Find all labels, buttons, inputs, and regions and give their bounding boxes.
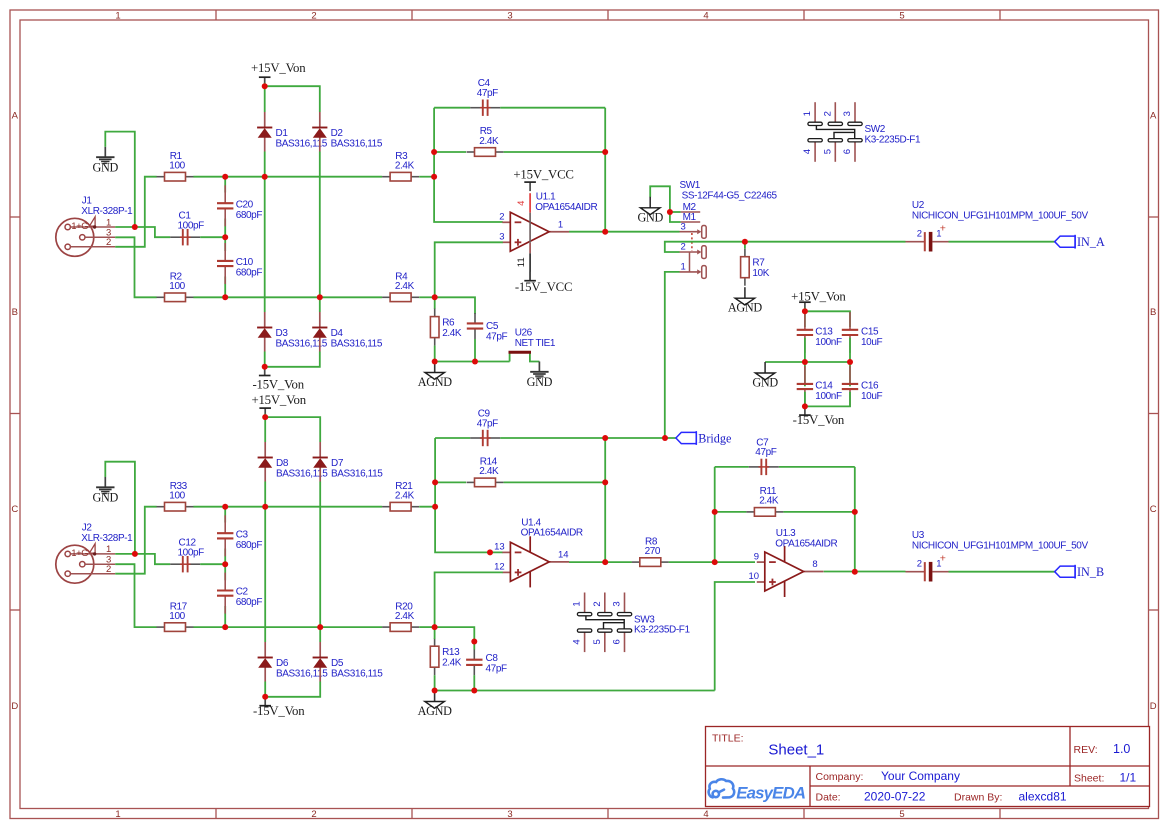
svg-text:K3-2235D-F1: K3-2235D-F1 (865, 134, 921, 145)
svg-text:47pF: 47pF (477, 88, 498, 99)
svg-text:2: 2 (311, 10, 316, 21)
svg-text:2.4K: 2.4K (395, 491, 415, 502)
wire R8 to U1.3 pin9 (669, 561, 755, 563)
svg-text:4: 4 (516, 201, 527, 206)
svg-text:OPA1654AIDR: OPA1654AIDR (521, 528, 583, 539)
svg-text:J2: J2 (82, 522, 93, 533)
resistor R3 (382, 151, 419, 181)
wire D3 D4 to -15V_Von (265, 352, 320, 367)
svg-text:680pF: 680pF (236, 540, 263, 551)
svg-text:+15V_VCC: +15V_VCC (513, 167, 573, 181)
svg-text:5: 5 (592, 639, 603, 644)
svg-text:alexcd81: alexcd81 (1019, 790, 1067, 804)
svg-text:IN_B: IN_B (1077, 565, 1104, 579)
wire U1.1 output vertical (604, 108, 606, 232)
ground GND near U26 (527, 362, 553, 390)
wire J1 pin2 to R1 (115, 177, 156, 247)
wire R7 top stub (744, 242, 746, 249)
ground AGND under R7 (728, 287, 763, 315)
svg-text:100: 100 (169, 281, 185, 292)
diode D7 (313, 442, 384, 482)
svg-text:2020-07-22: 2020-07-22 (864, 790, 926, 804)
svg-text:R13: R13 (442, 647, 460, 658)
svg-text:6: 6 (612, 639, 623, 644)
svg-text:2: 2 (917, 558, 922, 569)
wire U1.4 inverting input net (435, 438, 503, 552)
wire C3 C2 vertical (224, 507, 226, 627)
wire D6 D5 to -15V_Von (265, 682, 320, 697)
capacitor C9 (470, 409, 500, 447)
svg-text:12: 12 (494, 562, 505, 573)
ground GND near C13 (752, 362, 778, 390)
connector J2 XLR-328P-1 (56, 522, 133, 583)
wire R3 right to node (419, 176, 434, 178)
svg-text:IN_A: IN_A (1077, 235, 1105, 249)
diode D8 (258, 442, 329, 482)
wire U1.4 pin12 net (435, 572, 503, 627)
svg-text:REV:: REV: (1074, 744, 1098, 756)
svg-text:3: 3 (842, 111, 853, 116)
wire C1 to C20 C10 node (200, 236, 225, 238)
svg-text:47pF: 47pF (486, 332, 507, 343)
ground AGND near R6 (418, 362, 453, 390)
svg-text:OPA1654AIDR: OPA1654AIDR (775, 538, 837, 549)
resistor R6 (430, 309, 462, 346)
svg-text:10uF: 10uF (861, 391, 882, 402)
net tie U26 (509, 327, 556, 361)
svg-text:GND: GND (637, 210, 663, 224)
svg-text:Sheet_1: Sheet_1 (768, 741, 824, 758)
diode D2 (312, 112, 383, 152)
ground GND near J2 (93, 477, 119, 505)
svg-text:C8: C8 (486, 653, 499, 664)
wire row2 node to C5 (435, 297, 475, 314)
svg-text:BAS316,115: BAS316,115 (331, 138, 383, 149)
svg-text:47pF: 47pF (755, 447, 776, 458)
svg-text:+15V_Von: +15V_Von (251, 61, 306, 75)
svg-text:D: D (1150, 701, 1157, 712)
wire J2 pin3 to R17 (115, 564, 156, 627)
svg-text:U2: U2 (912, 200, 925, 211)
svg-text:D4: D4 (331, 328, 344, 339)
svg-text:D: D (11, 701, 18, 712)
svg-text:8: 8 (812, 559, 817, 570)
svg-text:K3-2235D-F1: K3-2235D-F1 (634, 625, 690, 636)
svg-text:C14: C14 (815, 381, 833, 392)
svg-text:A: A (12, 111, 19, 122)
svg-text:BAS316,115: BAS316,115 (331, 468, 383, 479)
diode D3 (257, 312, 328, 352)
polymer capacitor U3 (906, 530, 1089, 582)
svg-text:2.4K: 2.4K (759, 496, 779, 507)
svg-text:D3: D3 (276, 328, 289, 339)
diode D1 (257, 112, 328, 152)
wire GND loop to J2 pin1 (105, 462, 135, 555)
ground GND near SW1 (637, 197, 663, 225)
svg-text:D2: D2 (331, 128, 344, 139)
svg-text:GND: GND (752, 376, 778, 390)
title block (706, 727, 1150, 807)
wire C8 stub (473, 642, 475, 650)
wire J1 pin3 to R2 (115, 237, 156, 297)
wire C5 R6 to AGND row (435, 339, 510, 362)
wire +15V_Von to D8 D7 (265, 414, 320, 442)
wire R13 C8 to AGND row (435, 675, 715, 690)
svg-text:4: 4 (802, 149, 813, 154)
svg-text:D5: D5 (331, 658, 344, 669)
svg-text:+: + (940, 222, 946, 234)
wire J1 pin1 to C1 (115, 227, 170, 237)
svg-text:U1.3: U1.3 (776, 528, 796, 539)
wire C7 R11 left vertical (714, 467, 716, 562)
resistor R13 (430, 638, 462, 675)
wire U2 to IN_A port (949, 241, 1055, 243)
svg-text:XLR-328P-1: XLR-328P-1 (81, 206, 133, 217)
net port Bridge (676, 431, 731, 445)
svg-text:1: 1 (802, 111, 813, 116)
svg-text:47pF: 47pF (486, 664, 507, 675)
wire D1 anode to row1 and D3 (264, 152, 266, 313)
wire +15V_Von to D1 D2 (265, 83, 320, 112)
wire U1.1 pin3 to row2 node (435, 242, 503, 309)
svg-text:2: 2 (106, 237, 111, 248)
junction dots top section (132, 83, 853, 409)
svg-text:1: 1 (681, 262, 686, 273)
wire U1.3 output to U3 (824, 571, 906, 573)
wire row2b R17 to R20 (193, 626, 382, 628)
svg-text:C: C (1150, 504, 1157, 515)
wire C4 row (434, 107, 605, 109)
svg-text:100nF: 100nF (815, 391, 842, 402)
power flag -15V_Von right (793, 406, 845, 427)
wire GND to SW1 M2 M1 (650, 186, 680, 222)
svg-text:47pF: 47pF (477, 418, 498, 429)
svg-text:4: 4 (703, 809, 708, 820)
svg-text:D7: D7 (331, 458, 344, 469)
junction dots bottom section (132, 414, 858, 700)
svg-text:10K: 10K (752, 268, 769, 279)
svg-text:1: 1 (115, 809, 120, 820)
wire U1.4 output vertical (604, 438, 606, 562)
svg-text:10: 10 (749, 571, 760, 582)
resistor R21 (382, 481, 419, 511)
svg-text:C16: C16 (861, 381, 879, 392)
wire J2 pin1 to C12 (115, 554, 170, 564)
svg-text:2.4K: 2.4K (395, 161, 415, 172)
svg-text:2: 2 (592, 601, 603, 606)
svg-text:SS-12F44-G5_C22465: SS-12F44-G5_C22465 (682, 191, 778, 202)
resistor R20 (382, 601, 419, 631)
svg-text:1+G: 1+G (71, 548, 88, 558)
wire D8 anode to row1b and D6 (264, 482, 266, 643)
svg-text:100pF: 100pF (178, 547, 205, 558)
svg-text:-15V_Von: -15V_Von (252, 378, 304, 392)
wire D7 anode down to row2b and D5 (319, 482, 321, 643)
svg-text:Company:: Company: (816, 771, 864, 783)
svg-text:Date:: Date: (816, 792, 841, 804)
svg-text:3: 3 (507, 10, 512, 21)
svg-text:GND: GND (527, 375, 553, 389)
wire R14 row (435, 481, 605, 483)
capacitor C10 (217, 243, 262, 284)
svg-text:C2: C2 (236, 587, 249, 598)
wire row1b R33 to R21 (193, 506, 382, 508)
svg-text:TITLE:: TITLE: (712, 733, 744, 745)
svg-text:2: 2 (917, 228, 922, 239)
svg-text:NICHICON_UFG1H101MPM_100UF_50V: NICHICON_UFG1H101MPM_100UF_50V (912, 541, 1089, 552)
svg-text:1/1: 1/1 (1120, 771, 1137, 785)
wire U1.1 inverting input net (434, 108, 503, 222)
op-amp U1.1 (499, 192, 597, 281)
svg-text:2: 2 (106, 564, 111, 575)
svg-text:3: 3 (507, 809, 512, 820)
capacitor C14 (797, 366, 842, 407)
power flag -15V_Von bottom (253, 697, 305, 718)
svg-text:Sheet:: Sheet: (1074, 773, 1104, 785)
ground GND near J1 (93, 147, 119, 175)
wire U1.3 pin10 net (715, 582, 755, 691)
svg-text:U1.1: U1.1 (536, 192, 556, 203)
svg-text:U1.4: U1.4 (521, 517, 541, 528)
svg-text:A: A (1150, 111, 1157, 122)
capacitor C4 (470, 78, 500, 116)
svg-text:13: 13 (494, 542, 505, 553)
svg-text:6: 6 (842, 149, 853, 154)
svg-text:3: 3 (499, 232, 504, 243)
svg-text:+: + (940, 552, 946, 564)
svg-text:3: 3 (681, 221, 686, 232)
diode D5 (313, 642, 384, 682)
svg-text:Bridge: Bridge (698, 431, 731, 445)
svg-text:+15V_Von: +15V_Von (251, 393, 306, 407)
svg-text:100nF: 100nF (815, 337, 842, 348)
svg-text:U3: U3 (912, 530, 925, 541)
svg-text:C13: C13 (815, 327, 833, 338)
svg-text:2.4K: 2.4K (395, 611, 415, 622)
capacitor C8 (466, 649, 507, 675)
wire row2 R2 to R4 (193, 296, 382, 298)
op-amp U1.4 (494, 517, 583, 587)
resistor R17 (157, 601, 194, 631)
svg-text:C15: C15 (861, 327, 879, 338)
wire C13 C15 mid row (765, 338, 850, 387)
EasyEDA logo (709, 779, 806, 802)
capacitor C20 (217, 185, 262, 226)
svg-text:D1: D1 (276, 128, 289, 139)
switch SW3 K3-2235D-F1 (572, 593, 691, 653)
svg-text:14: 14 (558, 550, 569, 561)
wire D2 anode down to row2 and D4 (319, 152, 321, 313)
svg-text:680pF: 680pF (236, 597, 263, 608)
svg-text:NICHICON_UFG1H101MPM_100UF_50V: NICHICON_UFG1H101MPM_100UF_50V (912, 211, 1089, 222)
svg-text:5: 5 (822, 149, 833, 154)
svg-text:100pF: 100pF (178, 220, 205, 231)
svg-text:3: 3 (612, 601, 623, 606)
resistor R11 (746, 486, 783, 516)
svg-text:D8: D8 (276, 458, 289, 469)
wire U1.4 output to R8 (569, 561, 632, 563)
resistor R14 (467, 457, 504, 487)
net port IN_B (1055, 565, 1104, 579)
svg-text:680pF: 680pF (236, 268, 263, 279)
wire J2 pin2 to R33 (115, 507, 156, 574)
resistor R5 (467, 126, 504, 156)
svg-text:-15V_VCC: -15V_VCC (515, 280, 572, 294)
svg-text:AGND: AGND (418, 704, 453, 718)
capacitor C16 (842, 366, 883, 407)
resistor R33 (157, 481, 194, 511)
power flag -15V_VCC (515, 272, 572, 294)
svg-text:2.4K: 2.4K (479, 136, 499, 147)
svg-text:1: 1 (115, 10, 120, 21)
resistor R2 (157, 272, 194, 302)
wire SW1 pin1 to Bridge (665, 272, 680, 438)
capacitor C12 (170, 538, 204, 573)
svg-text:C: C (11, 504, 18, 515)
svg-text:2.4K: 2.4K (479, 466, 499, 477)
capacitor C13 (797, 312, 842, 353)
svg-text:BAS316,115: BAS316,115 (331, 338, 383, 349)
svg-text:2.4K: 2.4K (442, 328, 462, 339)
wire U3 to IN_B port (949, 571, 1055, 573)
capacitor C5 (467, 313, 508, 343)
capacitor C7 (749, 437, 779, 475)
connector J1 XLR-328P-1 (56, 196, 133, 257)
net port IN_A (1055, 235, 1105, 249)
wire R21 right to node (419, 506, 435, 508)
svg-text:OPA1654AIDR: OPA1654AIDR (535, 202, 597, 213)
svg-text:2.4K: 2.4K (442, 658, 462, 669)
switch SW1 SS-12F44-G5 (680, 180, 778, 278)
svg-text:+15V_Von: +15V_Von (791, 290, 846, 304)
svg-text:BAS316,115: BAS316,115 (331, 668, 383, 679)
svg-text:680pF: 680pF (236, 210, 263, 221)
svg-text:C20: C20 (236, 199, 254, 210)
wire C7 row (715, 466, 855, 468)
svg-text:B: B (12, 307, 18, 318)
svg-text:100: 100 (169, 161, 185, 172)
wire R4 right to node (419, 296, 435, 298)
wire GND loop to J1 pin1 (105, 132, 135, 227)
power flag +15V_VCC (513, 167, 573, 191)
svg-text:Your Company: Your Company (881, 769, 960, 783)
wire +15V to C13 C15 (805, 308, 850, 327)
svg-text:GND: GND (93, 491, 119, 505)
svg-text:2: 2 (499, 212, 504, 223)
power flag +15V_Von bottom (251, 393, 306, 417)
svg-text:C3: C3 (236, 529, 249, 540)
svg-text:2: 2 (311, 809, 316, 820)
capacitor C1 (170, 211, 204, 246)
svg-text:U26: U26 (515, 327, 533, 338)
svg-text:10uF: 10uF (861, 337, 882, 348)
power flag +15V_Von top (251, 61, 306, 86)
power flag -15V_Von top (252, 367, 304, 392)
svg-text:4: 4 (572, 639, 583, 644)
wire U1.1 output to SW1 pin3 (569, 231, 680, 233)
svg-text:100: 100 (169, 491, 185, 502)
wire R13 top stub (434, 627, 436, 639)
svg-text:5: 5 (899, 10, 904, 21)
switch SW2 K3-2235D-F1 (802, 102, 921, 162)
svg-text:C10: C10 (236, 257, 254, 268)
resistor R4 (382, 272, 419, 302)
svg-text:2: 2 (822, 111, 833, 116)
svg-text:Drawn By:: Drawn By: (954, 792, 1002, 804)
svg-text:-15V_Von: -15V_Von (793, 413, 845, 427)
svg-text:2: 2 (681, 242, 686, 253)
svg-text:GND: GND (93, 161, 119, 175)
svg-text:J1: J1 (82, 196, 93, 207)
svg-text:5: 5 (899, 809, 904, 820)
svg-text:1: 1 (558, 219, 563, 230)
wire R11 row (715, 511, 855, 513)
svg-text:AGND: AGND (418, 375, 453, 389)
diode D6 (258, 642, 329, 682)
svg-text:EasyEDA: EasyEDA (736, 783, 805, 802)
svg-text:B: B (1150, 307, 1156, 318)
wire C7 R11 right vertical (854, 467, 856, 572)
svg-text:C5: C5 (486, 321, 499, 332)
svg-text:100: 100 (169, 611, 185, 622)
wire row2b node to C8 (435, 627, 475, 641)
svg-text:1: 1 (572, 601, 583, 606)
wire C14 C16 bottom (805, 392, 850, 407)
wire R5 row (434, 151, 605, 153)
wire SW1 pin2 to IN_A row (665, 242, 906, 252)
wire C20 C10 vertical (224, 177, 226, 298)
power flag +15V_Von right (791, 290, 846, 312)
svg-text:9: 9 (754, 551, 759, 562)
ground AGND near R13 (418, 691, 453, 719)
svg-text:1+G: 1+G (71, 221, 88, 231)
svg-text:4: 4 (703, 10, 708, 21)
diode D4 (312, 312, 383, 352)
svg-text:1.0: 1.0 (1113, 742, 1130, 756)
capacitor C3 (217, 515, 262, 556)
wire row1 R1 to R3 (193, 176, 382, 178)
capacitor C2 (217, 573, 262, 614)
svg-text:NET TIE1: NET TIE1 (515, 338, 556, 349)
resistor R7 (741, 249, 770, 286)
svg-text:270: 270 (645, 546, 661, 557)
wire C9 row (435, 437, 676, 439)
wire C12 to C3 C2 node (200, 563, 225, 565)
resistor R1 (157, 151, 194, 181)
op-amp U1.3 (749, 528, 838, 597)
resistor R8 (632, 536, 669, 566)
capacitor C15 (842, 312, 883, 353)
svg-text:11: 11 (516, 257, 527, 267)
svg-text:XLR-328P-1: XLR-328P-1 (81, 533, 133, 544)
wire R20 right to node (419, 626, 434, 628)
svg-text:2.4K: 2.4K (395, 281, 415, 292)
svg-text:-15V_Von: -15V_Von (253, 704, 305, 718)
svg-text:R7: R7 (752, 258, 765, 269)
svg-text:D6: D6 (276, 658, 289, 669)
polymer capacitor U2 (906, 200, 1089, 252)
svg-text:R6: R6 (442, 318, 455, 329)
svg-text:AGND: AGND (728, 301, 763, 315)
